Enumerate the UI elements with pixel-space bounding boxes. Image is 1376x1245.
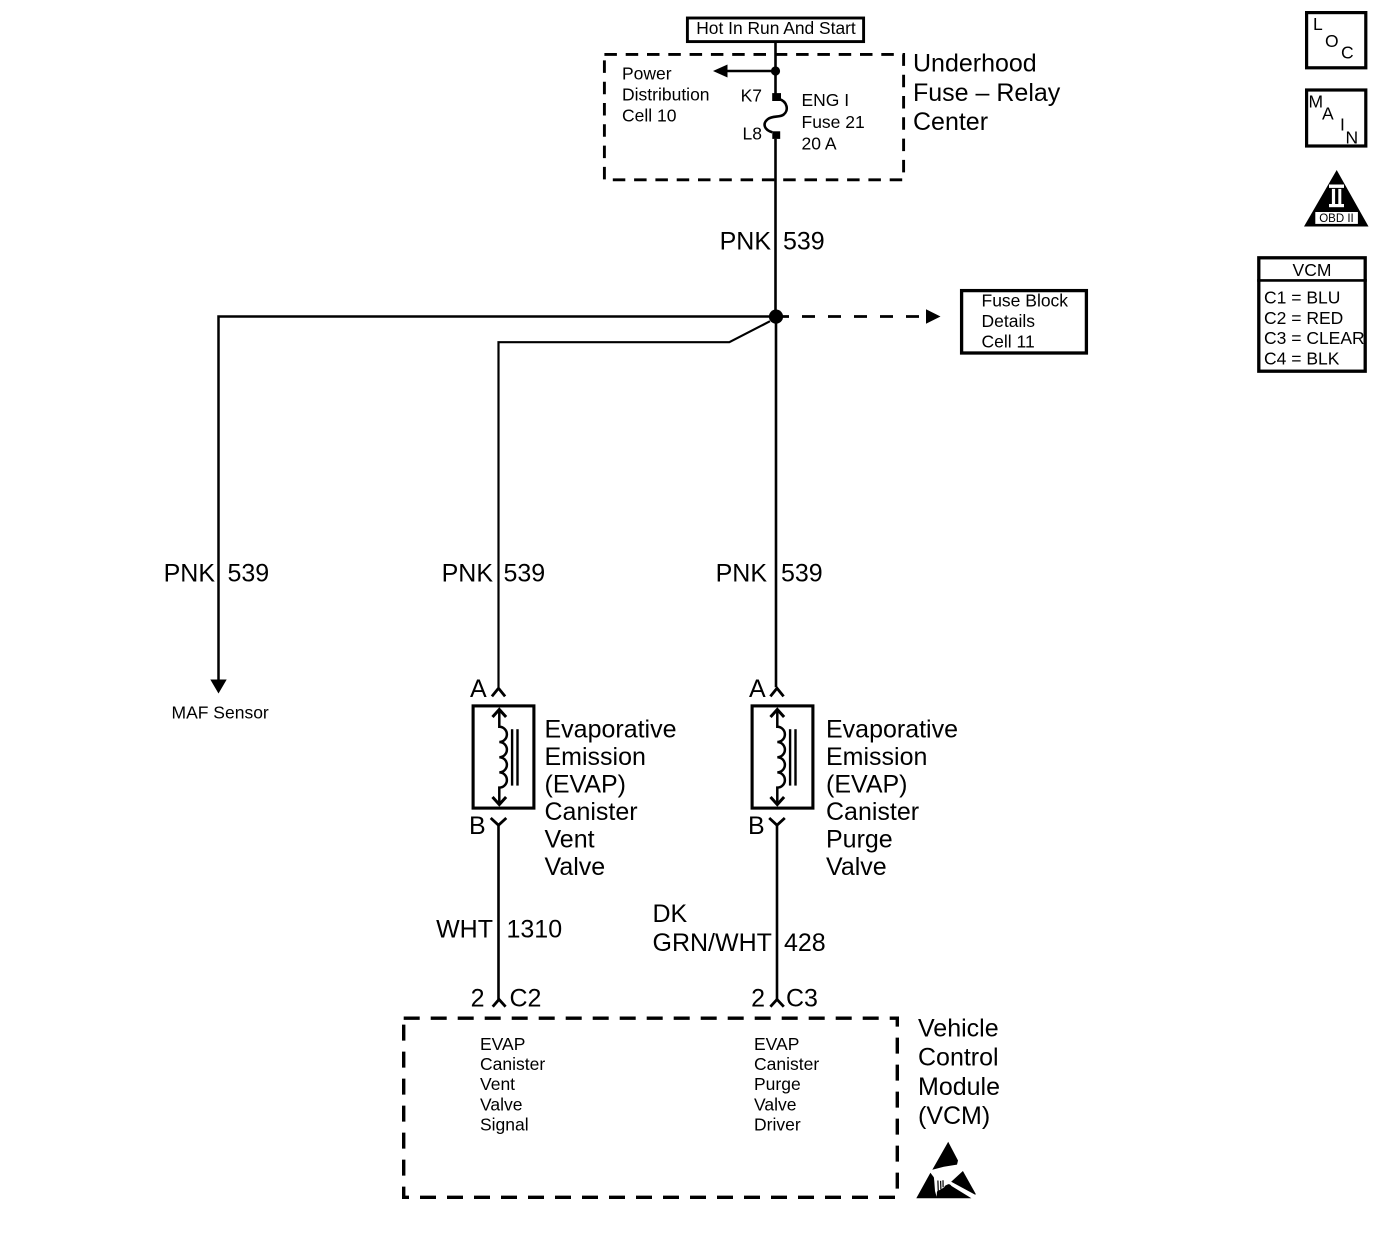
fuse F21 element (S-curve) xyxy=(765,99,787,132)
svg-text:I: I xyxy=(1340,115,1345,135)
connector pin 2 C2 xyxy=(493,999,506,1006)
svg-text:Canister: Canister xyxy=(480,1054,545,1074)
svg-text:O: O xyxy=(1325,31,1339,51)
svg-text:EVAP: EVAP xyxy=(480,1034,525,1054)
svg-text:PNK: PNK xyxy=(164,560,216,588)
Fuse Block Details box xyxy=(962,291,1087,353)
fuse F21 top terminal xyxy=(772,93,781,101)
svg-text:Canister: Canister xyxy=(826,798,919,826)
svg-text:Cell 11: Cell 11 xyxy=(982,331,1035,351)
svg-text:EVAP: EVAP xyxy=(754,1034,799,1054)
VCM connector color table xyxy=(1257,258,1367,371)
vent valve core lines xyxy=(511,729,513,785)
svg-text:Signal: Signal xyxy=(480,1114,529,1134)
svg-text:M: M xyxy=(1309,92,1324,112)
svg-text:Purge: Purge xyxy=(826,826,893,854)
svg-text:Fuse 21: Fuse 21 xyxy=(802,112,865,132)
svg-text:(EVAP): (EVAP) xyxy=(826,771,908,799)
svg-text:Canister: Canister xyxy=(754,1054,819,1074)
svg-text:Evaporative: Evaporative xyxy=(826,716,958,744)
svg-text:Cell 10: Cell 10 xyxy=(622,106,677,126)
svg-text:PNK: PNK xyxy=(716,560,768,588)
vent valve solenoid arrow and coil xyxy=(499,710,507,804)
svg-text:C2 = RED: C2 = RED xyxy=(1264,308,1343,328)
svg-text:C: C xyxy=(1341,42,1354,62)
svg-text:1310: 1310 xyxy=(507,916,563,944)
Vehicle Control Module dashed box xyxy=(404,1018,898,1197)
svg-text:539: 539 xyxy=(781,560,823,588)
svg-text:Valve: Valve xyxy=(545,853,606,881)
svg-text:B: B xyxy=(748,812,765,840)
fuse F21 bottom terminal xyxy=(772,131,780,139)
connector Y B (purge valve) xyxy=(769,818,785,825)
OBD II symbol xyxy=(1304,170,1369,227)
svg-text:L: L xyxy=(1313,14,1323,34)
svg-text:539: 539 xyxy=(783,228,825,256)
ESD top dart xyxy=(932,1142,958,1170)
label box "Hot In Run And Start" xyxy=(687,18,863,42)
svg-text:A: A xyxy=(749,675,766,703)
svg-text:L8: L8 xyxy=(743,124,762,144)
svg-text:Module: Module xyxy=(918,1073,1000,1101)
wire: left branch to MAF Sensor xyxy=(219,317,777,680)
svg-text:Valve: Valve xyxy=(826,853,887,881)
wire: right branch to EVAP purge valve xyxy=(775,320,778,687)
svg-text:Details: Details xyxy=(982,311,1036,331)
wire WHT 1310 xyxy=(497,825,500,999)
svg-text:(VCM): (VCM) xyxy=(918,1102,990,1130)
svg-text:PNK: PNK xyxy=(442,560,494,588)
svg-text:C4 = BLK: C4 = BLK xyxy=(1264,349,1340,369)
svg-text:B: B xyxy=(469,812,486,840)
Underhood Fuse-Relay Center dashed box xyxy=(604,54,903,179)
svg-text:Fuse Block: Fuse Block xyxy=(982,290,1069,310)
svg-text:Control: Control xyxy=(918,1044,999,1072)
svg-text:C3: C3 xyxy=(786,985,818,1013)
connector pin 2 C3 xyxy=(770,999,783,1006)
connector caret A (purge valve) xyxy=(770,688,783,696)
svg-text:Fuse – Relay: Fuse – Relay xyxy=(913,79,1061,107)
junction node at fuse feed xyxy=(771,66,780,75)
svg-text:ENG I: ENG I xyxy=(802,90,850,110)
ESD sensitive device symbol xyxy=(916,1142,976,1199)
svg-text:C1 = BLU: C1 = BLU xyxy=(1264,287,1340,307)
ESD right dart xyxy=(951,1171,976,1195)
wire: middle branch to EVAP vent valve xyxy=(499,321,771,687)
svg-text:OBD II: OBD II xyxy=(1319,213,1354,225)
ESD lower-left mass and base bar xyxy=(916,1173,971,1199)
svg-text:Canister: Canister xyxy=(545,798,638,826)
svg-text:Vent: Vent xyxy=(480,1074,515,1094)
arrowhead to MAF Sensor xyxy=(210,680,226,694)
wire/arrow to Power Distribution Cell 10 xyxy=(725,70,776,73)
svg-text:Valve: Valve xyxy=(754,1094,796,1114)
connector caret A (vent valve) xyxy=(492,688,505,696)
svg-text:DK: DK xyxy=(653,900,688,928)
svg-text:A: A xyxy=(1322,104,1334,124)
svg-text:539: 539 xyxy=(504,560,546,588)
svg-text:Center: Center xyxy=(913,108,988,136)
svg-text:2: 2 xyxy=(751,985,765,1013)
svg-text:K7: K7 xyxy=(741,85,762,105)
wire: fuse output PNK 539 down to splice xyxy=(774,139,777,317)
svg-text:C3 = CLEAR: C3 = CLEAR xyxy=(1264,328,1365,348)
svg-text:GRN/WHT: GRN/WHT xyxy=(653,929,772,957)
svg-text:Underhood: Underhood xyxy=(913,49,1037,77)
svg-text:Evaporative: Evaporative xyxy=(545,716,677,744)
svg-text:Hot In Run And Start: Hot In Run And Start xyxy=(696,18,856,38)
svg-text:Emission: Emission xyxy=(545,743,646,771)
LOC symbol xyxy=(1307,13,1366,68)
svg-text:Vent: Vent xyxy=(545,826,595,854)
purge valve solenoid arrow and coil xyxy=(777,710,785,804)
ESD hand (white) xyxy=(934,1173,954,1191)
svg-text:Distribution: Distribution xyxy=(622,85,710,105)
wire: feed from Hot In Run And Start into fuse block xyxy=(774,43,777,94)
EVAP canister vent valve box xyxy=(473,706,534,808)
connector Y B (vent valve) xyxy=(491,818,507,825)
EVAP canister purge valve box xyxy=(752,706,813,808)
svg-text:Purge: Purge xyxy=(754,1074,801,1094)
svg-text:539: 539 xyxy=(228,560,270,588)
svg-text:Emission: Emission xyxy=(826,743,927,771)
svg-text:C2: C2 xyxy=(510,985,542,1013)
ESD finger gaps xyxy=(937,1181,939,1193)
svg-text:Driver: Driver xyxy=(754,1114,801,1134)
svg-text:(EVAP): (EVAP) xyxy=(545,771,627,799)
svg-text:Vehicle: Vehicle xyxy=(918,1015,999,1043)
svg-text:VCM: VCM xyxy=(1293,260,1332,280)
svg-text:20 A: 20 A xyxy=(802,134,837,154)
svg-text:PNK: PNK xyxy=(720,228,772,256)
dashed arrow to Fuse Block Details xyxy=(776,315,927,318)
svg-text:Power: Power xyxy=(622,63,672,83)
svg-text:WHT: WHT xyxy=(436,916,493,944)
svg-text:2: 2 xyxy=(471,985,485,1013)
svg-text:A: A xyxy=(470,675,487,703)
svg-text:Valve: Valve xyxy=(480,1094,522,1114)
splice junction node S139 xyxy=(769,310,783,324)
purge valve core lines xyxy=(789,729,791,785)
svg-text:428: 428 xyxy=(784,929,826,957)
wire DK GRN/WHT 428 xyxy=(776,825,779,999)
svg-text:MAF Sensor: MAF Sensor xyxy=(172,703,269,723)
MAIN symbol xyxy=(1307,90,1366,146)
svg-text:N: N xyxy=(1346,128,1359,148)
